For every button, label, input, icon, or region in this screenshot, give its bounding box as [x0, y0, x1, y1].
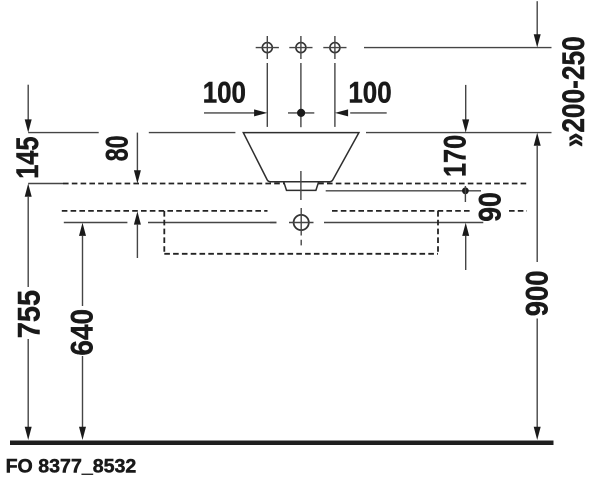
- svg-text:100: 100: [348, 76, 391, 109]
- washbasin foot / drain: [284, 182, 319, 191]
- dashed line at shelf level (right of 90 label): [509, 210, 527, 212]
- svg-text:100: 100: [203, 76, 246, 109]
- dimension 900 line: [536, 145, 538, 428]
- wire: left faucet axis line: [266, 63, 268, 127]
- basin centerline (dash): [300, 171, 302, 200]
- washbasin silhouette (white fill over dashed line): [243, 133, 359, 191]
- wire: reference line at hole center height (left): [64, 222, 277, 224]
- dimension 170 dot terminator: [462, 187, 469, 194]
- dimension 170 line: [465, 85, 467, 121]
- dimension 640 line: [79, 223, 86, 236]
- svg-text:900: 900: [520, 271, 555, 317]
- dashed line at shelf level (left of circle): [62, 210, 268, 212]
- faucet hole circle (right): [330, 43, 340, 53]
- svg-text:755: 755: [11, 290, 47, 338]
- dashed shelf rectangle bottom edge: [164, 253, 438, 255]
- wire: reference line right of basin foot: [326, 190, 481, 192]
- dimension 80 upper line: [136, 133, 138, 172]
- svg-text:80: 80: [99, 135, 134, 161]
- dashed line at shelf level (right of circle): [332, 210, 470, 212]
- wire: center faucet axis line: [300, 63, 302, 127]
- wire: horizontal reference line at faucet level: [364, 47, 552, 49]
- dimension 90 lower arrow: [462, 223, 469, 236]
- faucet hole circle (left): [262, 43, 272, 53]
- dimension 145 lower arrow: [25, 184, 32, 197]
- dimension 200-250 upper line: [536, 1, 538, 35]
- svg-text:FO 8377_8532: FO 8377_8532: [6, 456, 137, 478]
- svg-text:145: 145: [11, 137, 46, 179]
- dimension 80 lower arrow: [134, 211, 141, 224]
- crosshair of drain hole: [270, 208, 314, 245]
- dimension 200-250 lower arrow: [534, 133, 541, 146]
- dashed shelf rectangle left edge: [163, 211, 165, 254]
- svg-text:640: 640: [65, 309, 100, 356]
- svg-text:90: 90: [472, 192, 508, 222]
- dimension line 100 (right): [350, 112, 387, 114]
- svg-text:»200-250: »200-250: [557, 36, 592, 147]
- crosshair of right faucet hole: [323, 36, 346, 59]
- dimension 145 upper line: [27, 85, 29, 121]
- wire: countertop line left segments: [28, 132, 235, 134]
- node: center reference dot on faucet axis: [288, 112, 314, 114]
- dimension 755 line: [27, 196, 29, 428]
- wire: countertop line right segment: [366, 132, 552, 134]
- wire: solid stub at 755 level: [28, 183, 63, 185]
- wire: reference line at hole center height (right): [324, 222, 483, 224]
- washbasin bowl outline: [243, 133, 359, 182]
- dashed shelf rectangle right edge: [437, 211, 439, 254]
- dashed line at 755 level: [63, 183, 527, 185]
- drain hole circle: [294, 215, 309, 230]
- crosshair of left faucet hole: [256, 36, 279, 59]
- wire: right faucet axis line: [334, 63, 336, 127]
- svg-text:170: 170: [438, 135, 473, 177]
- crosshair of center faucet hole: [289, 36, 312, 59]
- dimension line 100 (left): [204, 112, 255, 114]
- faucet hole circle (center): [296, 43, 306, 53]
- floor line (thick): [10, 441, 554, 446]
